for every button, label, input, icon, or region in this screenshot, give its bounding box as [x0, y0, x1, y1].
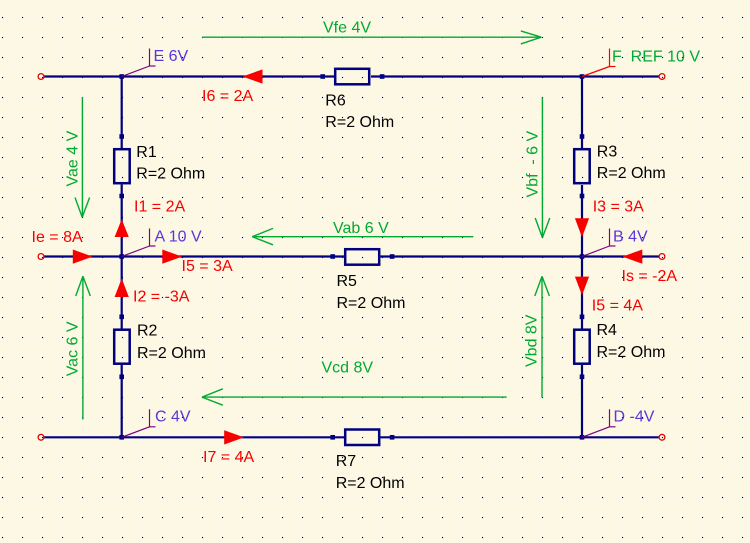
svg-text:A 10 V: A 10 V	[155, 228, 202, 245]
current arrow I6 with label I6 = 2A	[202, 69, 263, 105]
terminal top-left	[38, 74, 44, 80]
svg-text:B 4V: B 4V	[613, 228, 648, 245]
current arrow I1 with label I1 = 2A	[115, 199, 186, 238]
svg-text:R3: R3	[597, 143, 618, 160]
voltage arrow Vac 6 V	[65, 276, 91, 419]
voltage arrow Vab 6 V	[252, 220, 473, 245]
terminal top-right	[659, 74, 665, 80]
svg-text:R=2 Ohm: R=2 Ohm	[325, 114, 394, 131]
svg-text:Vab 6 V: Vab 6 V	[333, 220, 389, 237]
voltage arrow Vae 4 V	[65, 97, 90, 217]
svg-text:R1: R1	[136, 144, 157, 161]
terminal middle-right	[659, 254, 665, 260]
svg-text:Vae 4 V: Vae 4 V	[65, 130, 82, 186]
svg-text:I5 = 3A: I5 = 3A	[182, 258, 233, 275]
current arrow I2 with label I2 = -3A	[115, 278, 190, 305]
node B label B 4V	[582, 228, 648, 256]
wire bottom horizontal	[44, 436, 659, 438]
svg-text:F REF 10 V: F REF 10 V	[612, 48, 700, 65]
node E junction	[119, 74, 124, 79]
svg-text:R=2 Ohm: R=2 Ohm	[337, 295, 406, 312]
node B junction	[580, 254, 585, 259]
svg-text:R=2 Ohm: R=2 Ohm	[597, 344, 666, 361]
current arrow I3 with label I3 = 3A	[575, 199, 644, 238]
node A junction	[119, 254, 124, 259]
resistor R3	[574, 134, 666, 198]
svg-text:R7: R7	[336, 453, 357, 470]
voltage arrow Vbf - 6 V	[525, 97, 550, 237]
svg-text:I3 = 3A: I3 = 3A	[593, 199, 644, 216]
svg-text:E 6V: E 6V	[154, 48, 189, 65]
svg-text:Vac 6 V: Vac 6 V	[65, 321, 82, 376]
svg-text:C 4V: C 4V	[155, 409, 191, 426]
svg-text:I1 = 2A: I1 = 2A	[134, 199, 185, 216]
svg-text:I6 = 2A: I6 = 2A	[202, 88, 253, 105]
wire left vertical	[121, 77, 123, 438]
current arrow I5 (=4A) with label	[575, 277, 643, 315]
svg-text:Vbd 8V: Vbd 8V	[524, 314, 541, 367]
node F junction	[580, 74, 585, 79]
svg-text:D -4V: D -4V	[614, 409, 655, 426]
svg-text:R6: R6	[325, 93, 346, 110]
resistor R7	[330, 430, 404, 493]
node A label A 10 V	[122, 228, 202, 256]
resistor R1	[114, 134, 205, 198]
wire right vertical	[581, 77, 583, 438]
svg-text:Vbf - 6 V: Vbf - 6 V	[525, 130, 542, 197]
wire top horizontal	[44, 75, 659, 77]
current arrow I5 (=3A) with label	[162, 250, 233, 276]
svg-text:R=2 Ohm: R=2 Ohm	[136, 165, 205, 182]
node C junction	[119, 435, 124, 440]
node D junction	[580, 435, 585, 440]
voltage arrow Vfe 4V	[202, 19, 541, 44]
svg-text:Vcd 8V: Vcd 8V	[322, 360, 374, 377]
voltage arrow Vbd 8V	[524, 276, 550, 397]
svg-text:R=2 Ohm: R=2 Ohm	[336, 475, 405, 492]
svg-text:R2: R2	[137, 322, 158, 339]
voltage arrow Vcd 8V	[202, 360, 507, 406]
resistor R6	[320, 69, 394, 131]
terminal middle-left	[38, 254, 44, 260]
resistor R2	[114, 315, 206, 380]
node C label C 4V	[122, 409, 191, 438]
resistor R4	[574, 315, 665, 380]
svg-text:Vfe 4V: Vfe 4V	[323, 19, 371, 36]
svg-text:R=2 Ohm: R=2 Ohm	[137, 345, 206, 362]
current arrow Is with label Is = -2A	[622, 250, 678, 285]
svg-text:R=2 Ohm: R=2 Ohm	[597, 165, 666, 182]
wire middle horizontal	[44, 255, 659, 257]
current arrow Ie with label Ie = 8A	[32, 229, 93, 264]
svg-text:I5 = 4A: I5 = 4A	[592, 297, 643, 314]
svg-text:R5: R5	[337, 273, 358, 290]
svg-text:Is = -2A: Is = -2A	[622, 268, 678, 285]
svg-text:R4: R4	[597, 322, 618, 339]
svg-text:Ie = 8A: Ie = 8A	[32, 229, 83, 246]
terminal bottom-left	[38, 434, 44, 440]
node F label F REF 10 V	[582, 48, 700, 76]
svg-text:I7 = 4A: I7 = 4A	[203, 449, 254, 466]
svg-text:I2 = -3A: I2 = -3A	[133, 288, 190, 305]
current arrow I7 with label I7 = 4A	[203, 430, 254, 466]
node D label D -4V	[582, 409, 655, 438]
node E label E 6V	[122, 48, 189, 77]
resistor R5	[330, 249, 405, 312]
terminal bottom-right	[659, 434, 665, 440]
